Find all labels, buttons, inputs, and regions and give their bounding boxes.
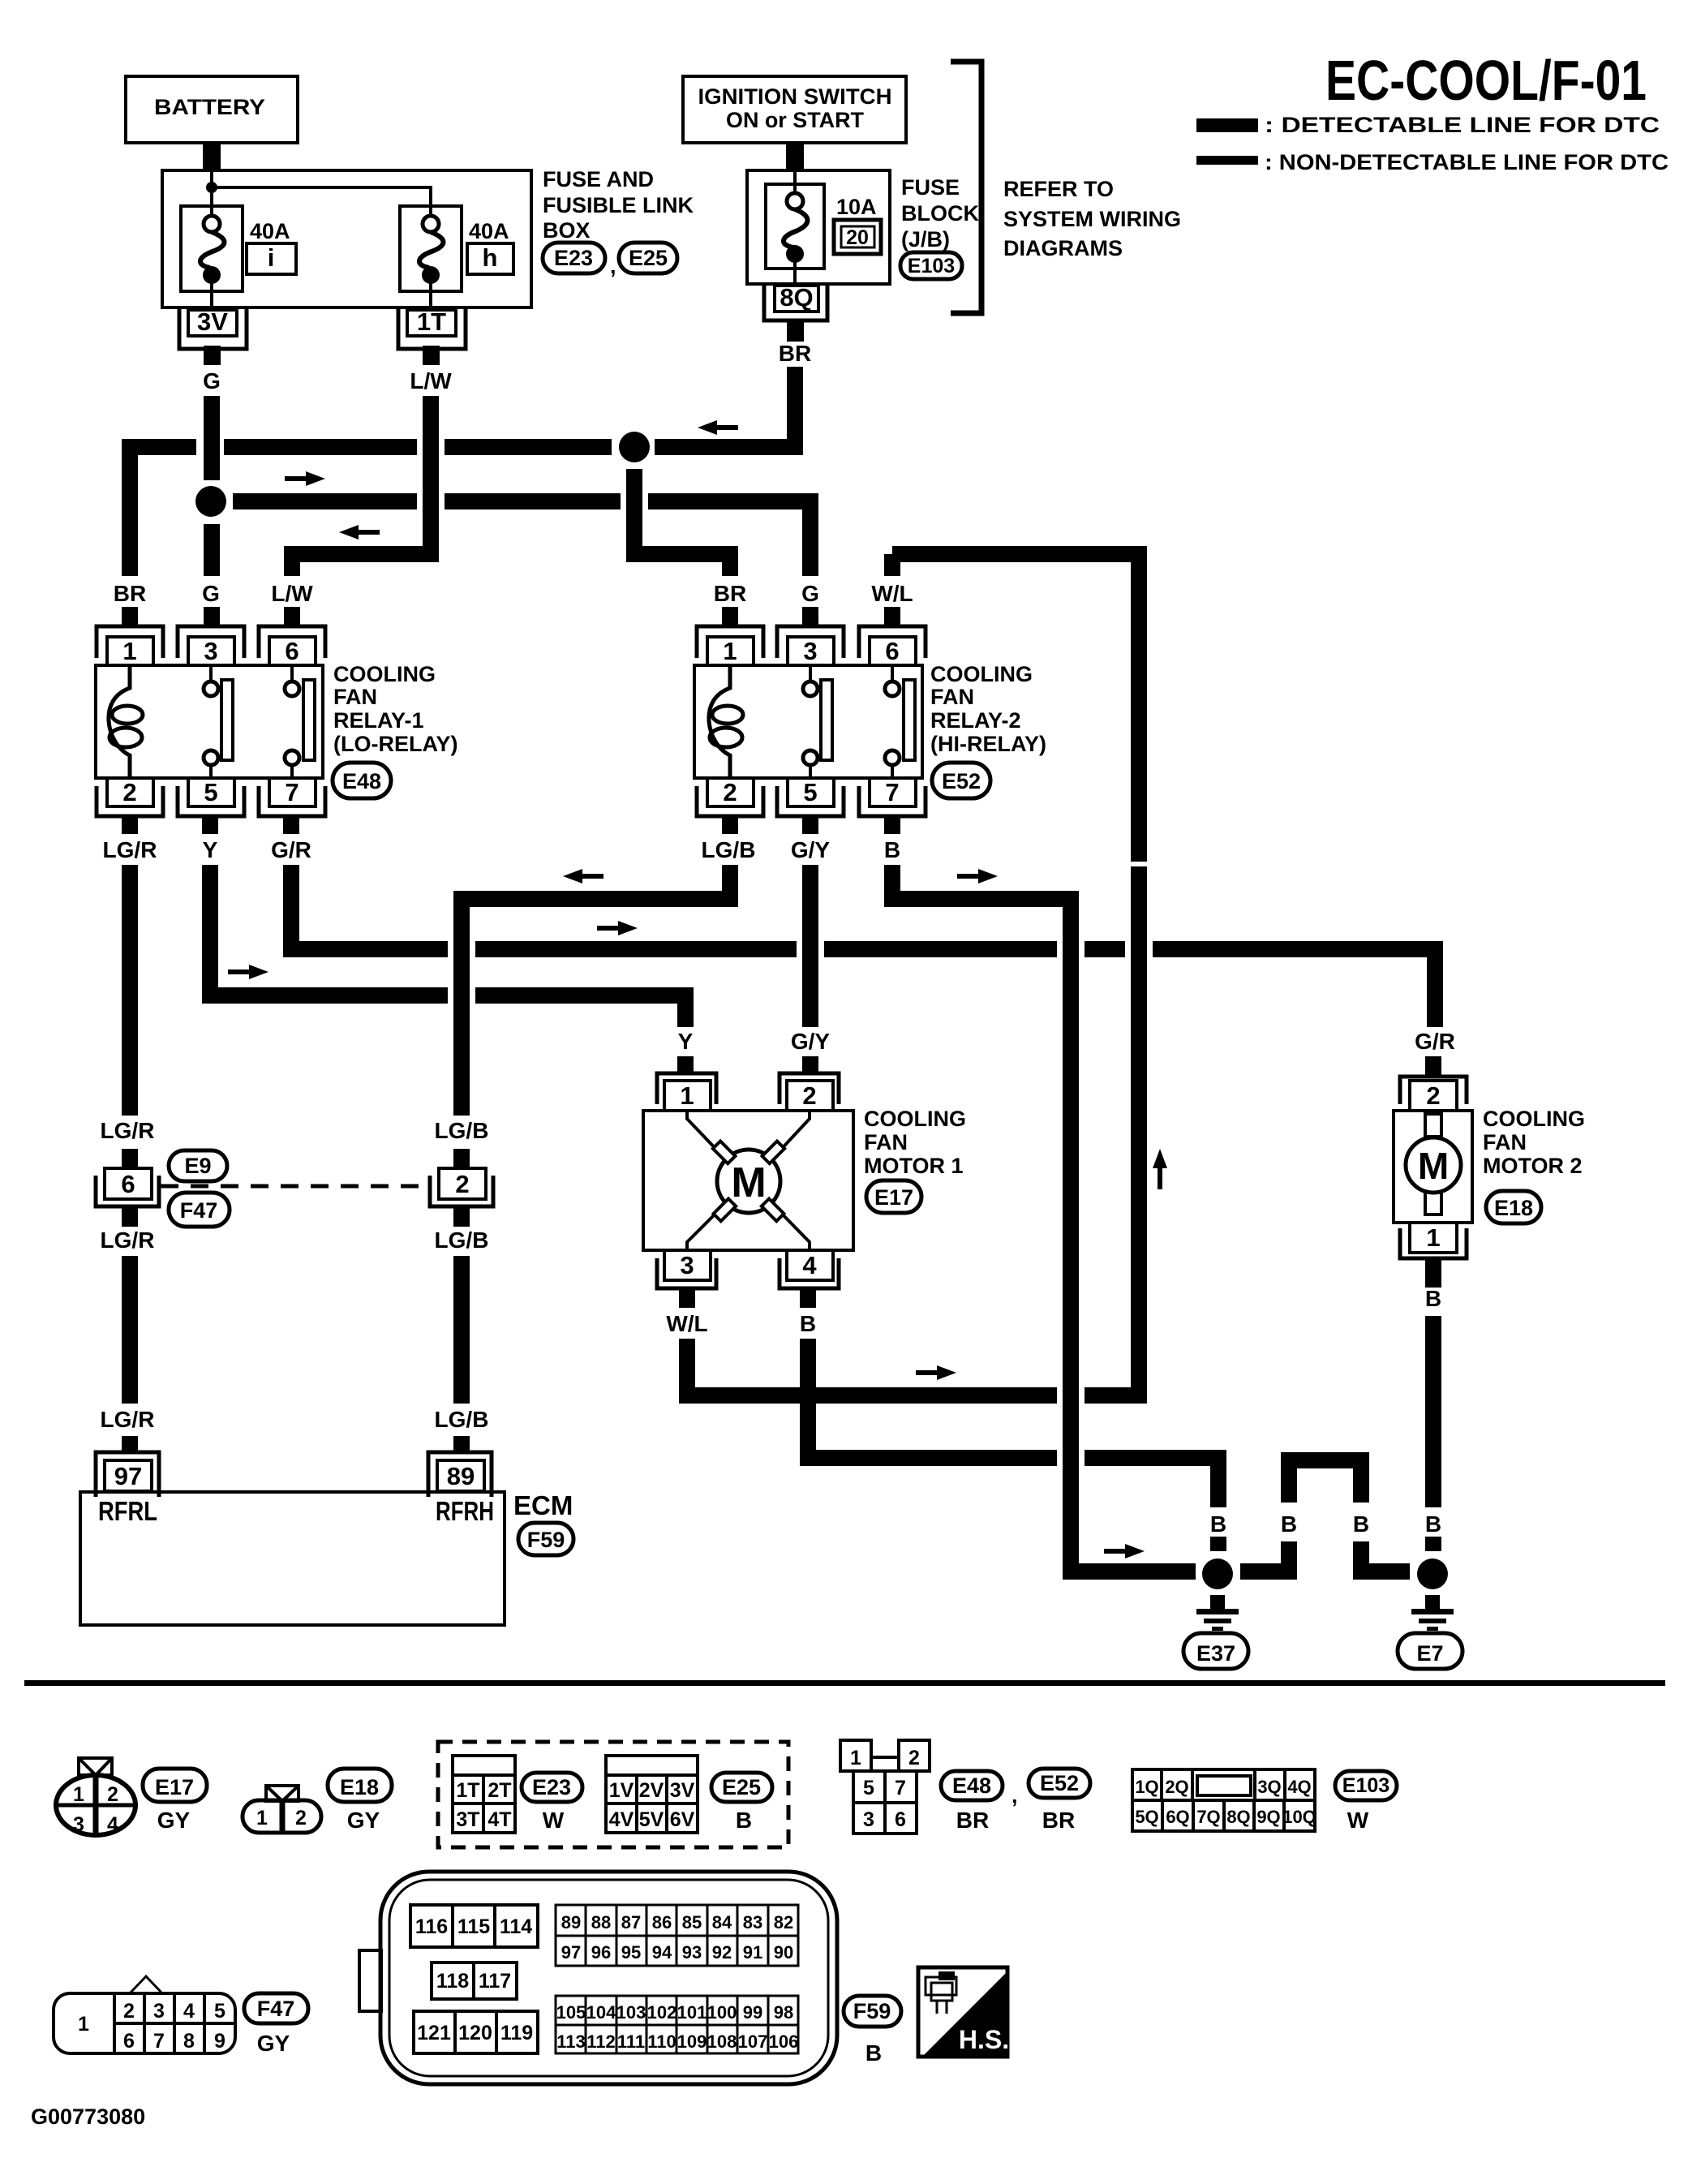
relay-2 contact 6-7: [891, 665, 894, 681]
svg-text:1: 1: [122, 637, 136, 665]
connector 6 of E9/F47: [96, 1168, 159, 1206]
svg-text:119: 119: [500, 2022, 533, 2044]
bracket refer to system wiring diagrams: [951, 62, 981, 313]
svg-text:112: 112: [586, 2031, 616, 2052]
svg-text:Y: Y: [203, 837, 218, 862]
wire G/R bus relay-1 pin7 to motor-2 pin2: [283, 865, 299, 957]
svg-text:G/R: G/R: [1415, 1029, 1455, 1054]
svg-text:W/L: W/L: [871, 581, 913, 606]
svg-text:RFRH: RFRH: [436, 1496, 494, 1526]
svg-text:B: B: [884, 837, 900, 862]
wire stubs below relay-2: [722, 816, 738, 834]
svg-text:1: 1: [850, 1747, 861, 1769]
wire G/Y relay-2 pin5 to motor-1 pin2: [802, 865, 818, 1027]
svg-text:104: 104: [586, 2002, 616, 2023]
svg-text:COOLING: COOLING: [930, 662, 1033, 686]
svg-text:105: 105: [556, 2002, 586, 2023]
svg-text:7Q: 7Q: [1196, 1807, 1220, 1827]
svg-text:9Q: 9Q: [1256, 1807, 1280, 1827]
connector view F59 ECM: [359, 1872, 837, 2084]
fuse 40A h: [400, 206, 462, 310]
ECM pin 89: [428, 1452, 492, 1497]
svg-text:120: 120: [458, 2022, 492, 2044]
svg-text:116: 116: [415, 1915, 448, 1938]
svg-text:B: B: [865, 2040, 882, 2066]
svg-text:110: 110: [647, 2031, 676, 2052]
svg-text:BR: BR: [714, 581, 746, 606]
svg-text:BR: BR: [114, 581, 146, 606]
svg-text:3: 3: [204, 637, 217, 665]
svg-text:121: 121: [417, 2022, 451, 2044]
svg-text:4: 4: [183, 2000, 195, 2023]
relay-2 pin 5: [777, 786, 844, 816]
svg-text:113: 113: [556, 2031, 586, 2052]
connector E7 oval: [1398, 1633, 1463, 1669]
svg-text:B: B: [1210, 1511, 1226, 1537]
svg-text:B: B: [736, 1808, 752, 1833]
svg-text:20: 20: [846, 226, 869, 249]
wire stub below 1T: [423, 346, 440, 365]
svg-text:F47: F47: [180, 1198, 218, 1223]
svg-text:BLOCK: BLOCK: [901, 201, 979, 226]
wire stub below 3V: [204, 346, 221, 365]
connector E103 oval label: [1335, 1771, 1397, 1800]
svg-text:4Q: 4Q: [1287, 1777, 1311, 1797]
svg-text:10Q: 10Q: [1282, 1807, 1316, 1827]
motor-1 pin 4: [780, 1258, 839, 1288]
wire Y relay-1 pin5 to motor-1 pin1: [202, 865, 218, 1004]
wire stubs above inline connectors: [122, 1149, 138, 1168]
svg-text:6: 6: [123, 2030, 135, 2053]
relay-1 pin 6: [259, 626, 325, 658]
motor-2 pin 2: [1400, 1077, 1467, 1104]
wire relay-2 pin3 drop: [802, 501, 818, 576]
relay-2 pin 1: [697, 626, 763, 658]
svg-text:LG/B: LG/B: [435, 1407, 489, 1432]
battery box: [126, 76, 298, 143]
relay-1 contact 6-7: [290, 665, 294, 681]
svg-text:FUSE: FUSE: [901, 175, 960, 200]
svg-text:8Q: 8Q: [1226, 1807, 1250, 1827]
arrow left on BR wire: [698, 420, 738, 435]
arrow left on LG/B wire: [563, 869, 603, 883]
connector view E25: [606, 1756, 698, 1833]
relay-2 pin 2: [697, 786, 763, 816]
svg-text:2Q: 2Q: [1165, 1777, 1188, 1797]
svg-text:E103: E103: [908, 255, 955, 277]
connector F47 oval: [169, 1193, 230, 1227]
svg-text:G/Y: G/Y: [791, 1029, 831, 1054]
svg-text:E52: E52: [1040, 1771, 1079, 1795]
svg-text:E25: E25: [629, 246, 668, 270]
svg-text:108: 108: [707, 2031, 737, 2052]
svg-text:1Q: 1Q: [1135, 1777, 1158, 1797]
svg-text:107: 107: [738, 2031, 768, 2052]
svg-text:1: 1: [1426, 1223, 1440, 1252]
wire jumper to fuse h: [212, 187, 431, 216]
svg-text:85: 85: [682, 1912, 702, 1932]
wire second bus G: [233, 493, 417, 509]
connector view E18: [243, 1786, 321, 1833]
svg-text:97: 97: [114, 1462, 142, 1490]
connector E17 oval: [866, 1180, 921, 1213]
wire LG/B below connector 2: [453, 1206, 470, 1227]
svg-text:101: 101: [677, 2002, 707, 2023]
connector E25 oval: [619, 243, 677, 273]
svg-text:1T: 1T: [456, 1779, 479, 1802]
connector F59 oval: [518, 1523, 573, 1555]
svg-text:ON or START: ON or START: [726, 108, 864, 132]
fuse 10A in J/B: [766, 170, 824, 286]
svg-text:LG/R: LG/R: [101, 1227, 155, 1253]
svg-text:4V: 4V: [609, 1808, 634, 1831]
svg-text:93: 93: [682, 1942, 702, 1963]
svg-text:3: 3: [153, 2000, 165, 2023]
fuse 40A i: [181, 206, 243, 310]
arrow right on Y wire: [228, 965, 268, 979]
motor E18 cooling fan motor 2: [1394, 1077, 1472, 1258]
svg-text:3V: 3V: [197, 307, 228, 336]
svg-text:RELAY-2: RELAY-2: [930, 708, 1021, 733]
svg-text:E18: E18: [340, 1775, 379, 1799]
svg-text:MOTOR 2: MOTOR 2: [1483, 1154, 1583, 1178]
wire B motor-2 pin1 to ground E7: [1425, 1258, 1441, 1288]
F59 grid 105-98 / 113-106: [556, 1996, 798, 2053]
separator line: [24, 1680, 1665, 1686]
svg-text:40A: 40A: [250, 219, 290, 243]
svg-text:5: 5: [214, 2000, 225, 2023]
svg-text:5Q: 5Q: [1135, 1807, 1158, 1827]
svg-text:COOLING: COOLING: [864, 1107, 966, 1131]
svg-text:G: G: [203, 368, 221, 393]
svg-text:MOTOR 1: MOTOR 1: [864, 1154, 964, 1178]
svg-text:B: B: [800, 1311, 816, 1336]
ECM body: [80, 1492, 505, 1625]
connector view E103: [1132, 1769, 1316, 1831]
relay-1 pin 1: [97, 626, 163, 658]
svg-text:E17: E17: [155, 1775, 194, 1799]
svg-text:(J/B): (J/B): [901, 227, 950, 252]
svg-text:LG/R: LG/R: [101, 1407, 155, 1432]
svg-text:h: h: [483, 243, 498, 272]
svg-text:91: 91: [743, 1942, 762, 1963]
svg-text:6V: 6V: [670, 1808, 695, 1831]
connector F59 oval label: [844, 1996, 901, 2027]
wire stubs below motor-1: [679, 1288, 695, 1308]
arrow left on L/W bus: [339, 525, 380, 540]
relay-2 pin 6: [859, 626, 926, 658]
svg-text:3V: 3V: [670, 1779, 695, 1802]
connector E52 oval label: [1029, 1769, 1090, 1798]
svg-text:87: 87: [621, 1912, 641, 1932]
svg-text:: DETECTABLE LINE FOR DTC: : DETECTABLE LINE FOR DTC: [1265, 113, 1660, 137]
relay-1 pin 5: [178, 786, 244, 816]
node junction BR bus: [619, 432, 650, 462]
svg-text:Y: Y: [678, 1029, 694, 1054]
svg-text:3Q: 3Q: [1257, 1777, 1281, 1797]
svg-text:FAN: FAN: [930, 685, 974, 709]
dashed group box E23 E25: [438, 1742, 788, 1847]
motor E17 cooling fan motor 1: [643, 1073, 853, 1288]
svg-text:B: B: [1281, 1511, 1297, 1537]
connector E23 oval: [543, 243, 605, 273]
svg-text:F59: F59: [527, 1528, 565, 1552]
connector E17 oval label: [143, 1769, 207, 1802]
svg-text:100: 100: [707, 2002, 737, 2023]
wire BR from 8Q down: [787, 367, 803, 447]
svg-text:8: 8: [183, 2030, 195, 2053]
relay-2 pin 3: [777, 626, 844, 658]
svg-text:EC-COOL/F-01: EC-COOL/F-01: [1325, 49, 1647, 112]
svg-text:BR: BR: [956, 1808, 989, 1833]
node junction ground E7: [1417, 1558, 1448, 1589]
motor-1 body: [643, 1111, 853, 1250]
ECM box F59: [80, 1452, 505, 1625]
motor-1 pin 2: [780, 1073, 839, 1104]
svg-text:2: 2: [295, 1807, 307, 1829]
svg-text:COOLING: COOLING: [333, 662, 436, 686]
svg-text:ECM: ECM: [513, 1490, 573, 1520]
svg-text:6Q: 6Q: [1166, 1807, 1189, 1827]
connector view E17: [56, 1758, 135, 1836]
svg-text:1T: 1T: [417, 307, 446, 336]
wire G from 3V down: [204, 396, 220, 480]
arrow right on G bus: [285, 471, 325, 486]
relay-2 body: [694, 665, 922, 778]
svg-text:4T: 4T: [488, 1808, 511, 1831]
svg-text:7: 7: [895, 1777, 906, 1799]
node junction G bus: [195, 486, 226, 517]
svg-text:3: 3: [863, 1808, 874, 1831]
svg-text:E48: E48: [952, 1773, 991, 1798]
dashed harness line E9 to F47: [161, 1184, 432, 1189]
svg-text:88: 88: [591, 1912, 611, 1932]
svg-text:109: 109: [677, 2031, 707, 2052]
svg-text:G/Y: G/Y: [791, 837, 831, 862]
svg-text:LG/R: LG/R: [103, 837, 157, 862]
svg-text:LG/B: LG/B: [702, 837, 756, 862]
relay-2 contact 3-5: [809, 665, 812, 681]
svg-text:3: 3: [73, 1813, 84, 1836]
svg-text:FUSIBLE LINK: FUSIBLE LINK: [543, 193, 694, 217]
svg-text:FAN: FAN: [1483, 1130, 1527, 1154]
svg-text:E7: E7: [1416, 1641, 1443, 1666]
svg-text:3: 3: [803, 637, 817, 665]
arrow right on B wire: [957, 869, 998, 883]
svg-text:99: 99: [743, 2002, 762, 2023]
connector E48 oval label: [941, 1771, 1003, 1800]
svg-text:7: 7: [153, 2030, 165, 2053]
fuse and fusible link box outline: [162, 170, 531, 307]
svg-text:G: G: [801, 581, 819, 606]
svg-text:RFRL: RFRL: [98, 1496, 157, 1526]
wire W/L relay-2 pin6 up and over: [884, 554, 900, 576]
svg-text:83: 83: [743, 1912, 762, 1932]
label box 20: [834, 220, 881, 254]
svg-text:FAN: FAN: [333, 685, 377, 709]
svg-text:REFER TO: REFER TO: [1003, 177, 1114, 201]
svg-text:4: 4: [802, 1251, 817, 1279]
relay-1 pin 7: [259, 786, 325, 816]
svg-text:84: 84: [712, 1912, 732, 1932]
svg-text:: NON-DETECTABLE LINE FOR DTC: : NON-DETECTABLE LINE FOR DTC: [1265, 150, 1669, 174]
wire battery lead inside box: [210, 170, 213, 216]
svg-text:2: 2: [723, 778, 737, 806]
connector E23 oval label: [522, 1773, 582, 1802]
arrow right on G/R bus: [597, 921, 638, 935]
svg-text:E18: E18: [1494, 1196, 1533, 1220]
H.S. logo: [918, 1967, 1009, 2057]
svg-text:9: 9: [214, 2030, 225, 2053]
svg-text:H.S.: H.S.: [959, 2025, 1009, 2054]
wire LG/R relay-1 pin2 to connector: [122, 865, 138, 1116]
connector E52 oval: [932, 763, 990, 798]
wire BR jog to relay-2 pin1: [634, 469, 730, 576]
svg-text:117: 117: [479, 1970, 511, 1993]
F59 cells 118 117: [432, 1963, 517, 1999]
relay E48 cooling fan relay-1: [96, 626, 325, 816]
connector E18 oval: [1486, 1191, 1541, 1223]
svg-text:97: 97: [561, 1942, 581, 1963]
svg-text:4: 4: [107, 1813, 118, 1836]
svg-text:COOLING: COOLING: [1483, 1107, 1585, 1131]
svg-text:SYSTEM WIRING: SYSTEM WIRING: [1003, 207, 1181, 231]
svg-text:GY: GY: [157, 1808, 191, 1833]
svg-text:6: 6: [885, 637, 899, 665]
svg-text:89: 89: [447, 1462, 475, 1490]
svg-text:6: 6: [285, 637, 299, 665]
svg-text:B: B: [1353, 1511, 1369, 1537]
connector 2 of E9/F47: [430, 1168, 493, 1206]
relay-1 coil: [109, 665, 130, 778]
connector view E48/E52: [840, 1740, 930, 1834]
label box h: [467, 243, 513, 274]
svg-text:E23: E23: [532, 1775, 571, 1799]
svg-text:3T: 3T: [456, 1808, 479, 1831]
motor-1 M circle: [717, 1150, 780, 1213]
svg-text:2T: 2T: [488, 1779, 511, 1802]
wire top bus BR: [122, 439, 196, 455]
wire stub below 8Q: [787, 320, 804, 342]
svg-text:FUSE AND: FUSE AND: [543, 167, 654, 191]
svg-text:1V: 1V: [609, 1779, 634, 1802]
svg-text:G: G: [202, 581, 220, 606]
motor-2 brushes: [1425, 1114, 1441, 1137]
connector view F47: [54, 1976, 235, 2053]
svg-text:5: 5: [204, 778, 217, 806]
svg-text:IGNITION SWITCH: IGNITION SWITCH: [698, 84, 892, 109]
connector E25 oval label: [711, 1773, 772, 1802]
svg-text:B: B: [1425, 1511, 1441, 1537]
svg-text:6: 6: [121, 1170, 135, 1198]
relay E52 cooling fan relay-2: [694, 626, 926, 816]
svg-text:L/W: L/W: [410, 368, 452, 393]
svg-text:M: M: [731, 1159, 766, 1206]
svg-text:2: 2: [802, 1081, 816, 1110]
svg-text:1: 1: [256, 1807, 268, 1829]
svg-text:6: 6: [895, 1808, 906, 1831]
motor-2 M circle: [1406, 1137, 1461, 1193]
F59 cells 121 120 119: [414, 2011, 538, 2053]
svg-text:82: 82: [774, 1912, 793, 1932]
svg-text:GY: GY: [347, 1808, 380, 1833]
svg-text:BR: BR: [1042, 1808, 1075, 1833]
svg-text:F47: F47: [257, 1997, 295, 2021]
relay-2 coil: [709, 665, 730, 778]
connector 3V: [179, 307, 247, 349]
svg-text:,: ,: [610, 254, 616, 278]
svg-text:G/R: G/R: [271, 837, 311, 862]
svg-text:(LO-RELAY): (LO-RELAY): [333, 732, 458, 756]
svg-text:FAN: FAN: [864, 1130, 908, 1154]
wire B bridge between grounds: [1240, 1468, 1289, 1571]
svg-text:B: B: [1425, 1286, 1441, 1311]
svg-text:RELAY-1: RELAY-1: [333, 708, 424, 733]
motor-2 pin 1: [1400, 1228, 1467, 1258]
svg-text:W: W: [543, 1808, 565, 1833]
svg-text:E25: E25: [722, 1775, 761, 1799]
svg-text:BOX: BOX: [543, 218, 591, 243]
svg-text:111: 111: [617, 2031, 645, 2052]
connector E37 oval: [1183, 1633, 1248, 1669]
motor-1 pin 1: [657, 1073, 716, 1104]
connector F47 oval label: [244, 1993, 308, 2023]
arrow right on W/L wire: [916, 1365, 956, 1380]
motor-1 pin 3: [657, 1258, 716, 1288]
relay-1 contact 3-5: [209, 665, 213, 681]
svg-text:94: 94: [652, 1942, 672, 1963]
svg-text:102: 102: [647, 2002, 677, 2023]
svg-text:5V: 5V: [639, 1808, 664, 1831]
svg-text:96: 96: [591, 1942, 611, 1963]
svg-text:40A: 40A: [469, 219, 509, 243]
svg-text:E23: E23: [554, 246, 593, 270]
svg-text:G00773080: G00773080: [31, 2104, 145, 2129]
wire relay-1 pin1 drop: [122, 439, 138, 576]
svg-text:W/L: W/L: [666, 1311, 707, 1336]
connector view E23: [453, 1756, 515, 1833]
svg-text:1: 1: [73, 1783, 84, 1806]
connector E48 oval: [333, 763, 391, 798]
svg-text:10A: 10A: [836, 195, 877, 219]
svg-text:E103: E103: [1342, 1774, 1389, 1797]
wire stubs below relay-1: [122, 816, 138, 834]
svg-text:89: 89: [561, 1912, 581, 1932]
svg-text:1: 1: [78, 2013, 89, 2036]
wire W/L motor-1 pin3 to relay-2: [679, 1339, 695, 1404]
ECM pin 97: [96, 1452, 159, 1497]
wire stubs above motor-1: [677, 1056, 694, 1075]
legend detectable line sample: [1196, 118, 1258, 132]
wire B relay-2 pin7 to ground E37: [884, 865, 900, 907]
relay-1 pin 3: [178, 626, 244, 658]
wire B motor-1 pin4 to ground E37: [800, 1339, 816, 1466]
svg-text:i: i: [268, 243, 275, 272]
connector 8Q: [764, 283, 827, 320]
svg-text:M: M: [1418, 1145, 1449, 1187]
wire ignition to fuse block: [786, 143, 804, 170]
svg-text:DIAGRAMS: DIAGRAMS: [1003, 236, 1123, 260]
svg-text:2: 2: [122, 778, 136, 806]
svg-text:BATTERY: BATTERY: [154, 95, 265, 119]
wire L/W from 1T down to relay-1 pin 6: [292, 396, 431, 576]
svg-text:2: 2: [455, 1170, 469, 1198]
svg-text:E37: E37: [1196, 1641, 1235, 1666]
arrow right on B wire near ground: [1104, 1544, 1145, 1558]
svg-text:L/W: L/W: [271, 581, 313, 606]
svg-text:(HI-RELAY): (HI-RELAY): [930, 732, 1046, 756]
svg-text:92: 92: [712, 1942, 732, 1963]
